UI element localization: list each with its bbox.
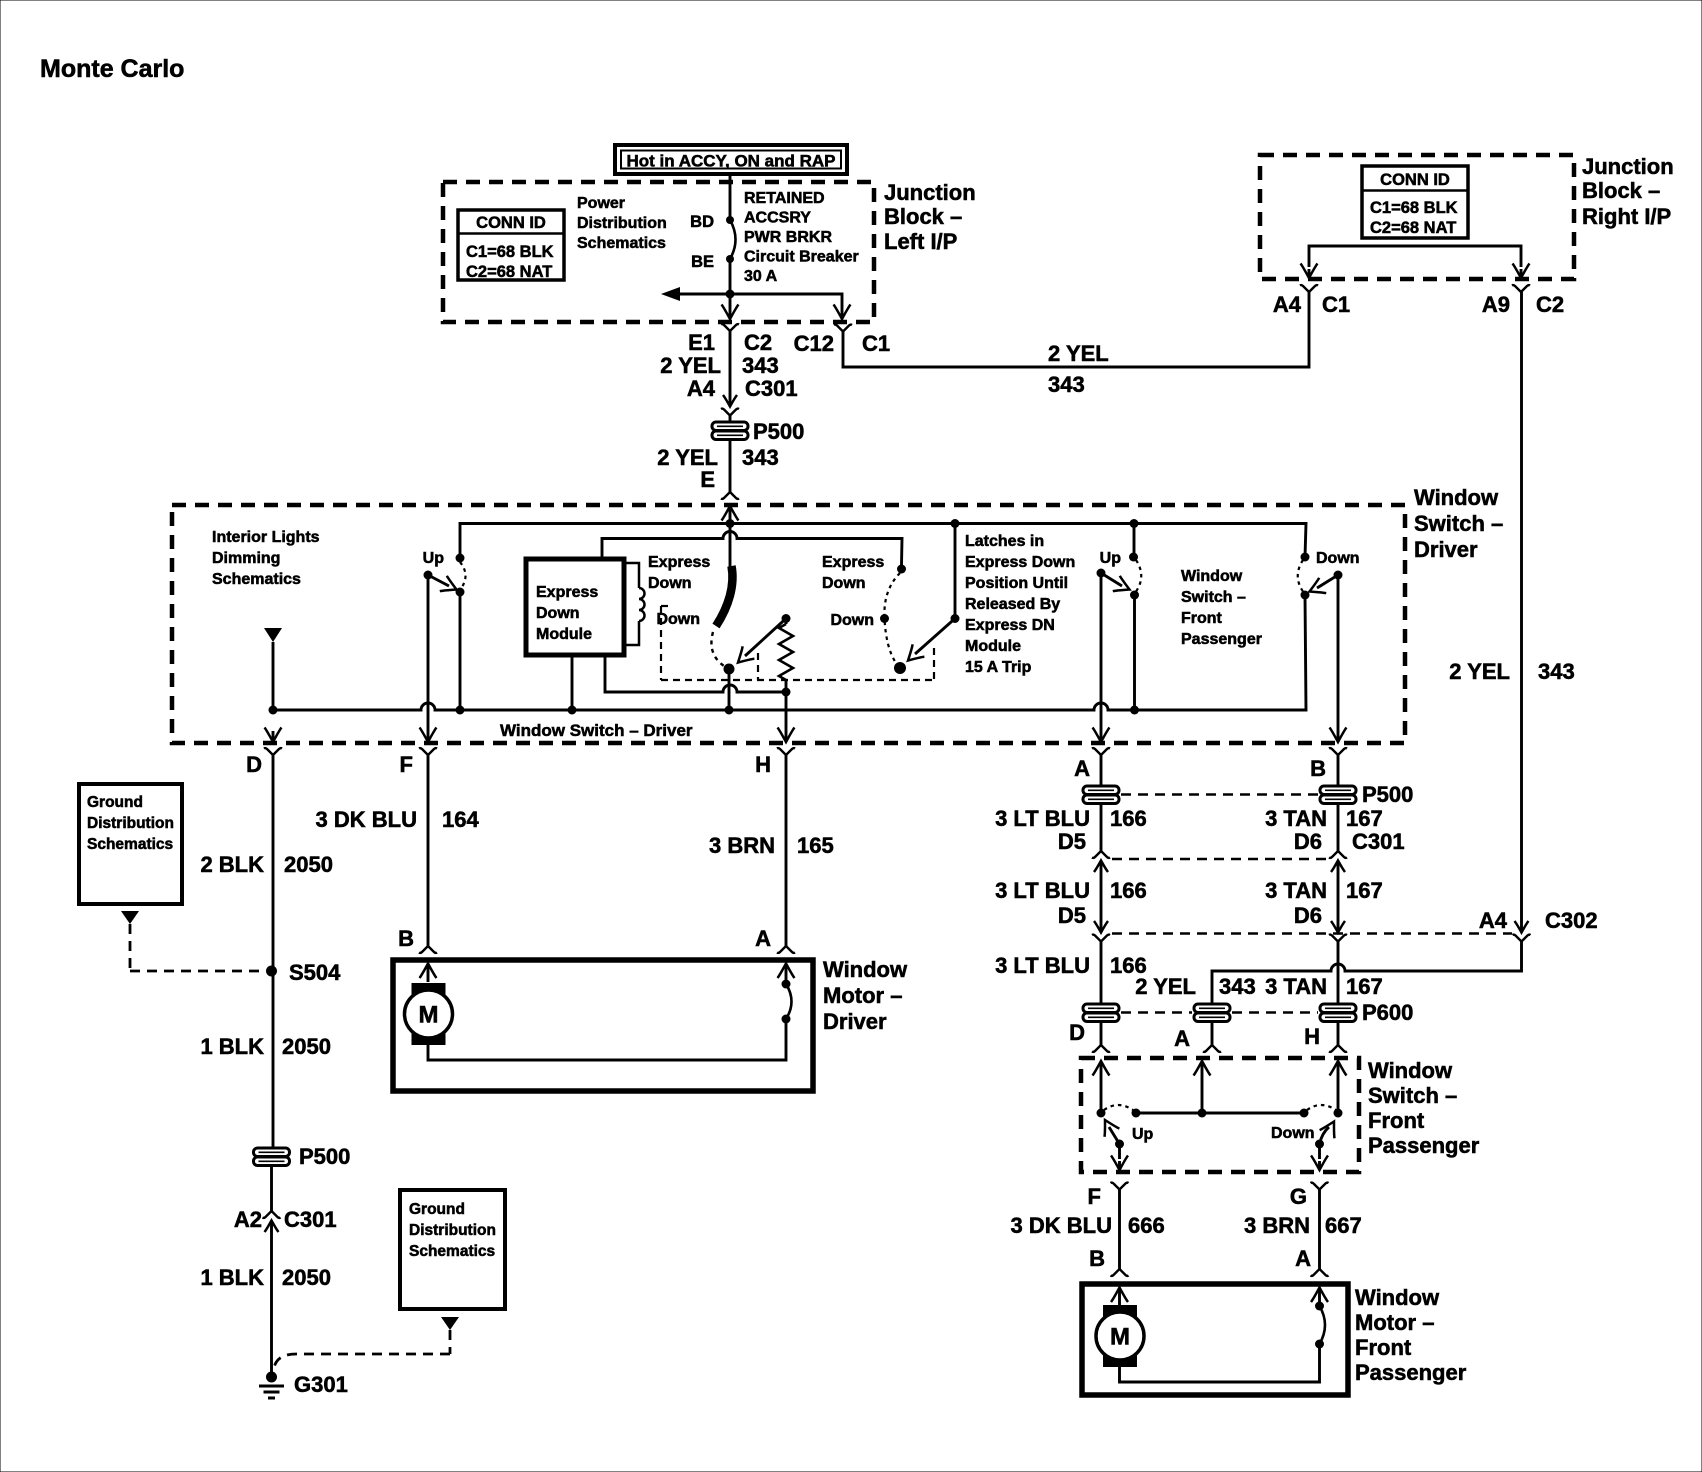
svg-text:P500: P500 [299, 1144, 350, 1169]
connector D passenger [1092, 1045, 1110, 1052]
label 3 BRN 667 [1244, 1213, 1362, 1238]
svg-text:3 BRN: 3 BRN [1244, 1213, 1310, 1238]
label 3 TAN 167 row1 [1265, 806, 1383, 831]
svg-text:667: 667 [1325, 1213, 1362, 1238]
svg-text:A9: A9 [1482, 292, 1510, 317]
label D6 row4 [1294, 903, 1322, 928]
svg-text:Driver: Driver [1414, 537, 1478, 562]
svg-text:Junction: Junction [1582, 154, 1674, 179]
node resistor bottom junction [782, 688, 791, 697]
svg-text:C1: C1 [1322, 292, 1350, 317]
wire B P500 to C301 [1337, 803, 1340, 851]
label Express Down first [648, 554, 710, 592]
connector F passenger [1088, 1183, 1129, 1209]
connector F [400, 748, 437, 777]
svg-text:PWR BRKR: PWR BRKR [744, 229, 832, 246]
interior lights feed triangle [264, 628, 282, 710]
svg-text:C1=68 BLK: C1=68 BLK [1370, 199, 1458, 217]
switch up driver contacts [456, 554, 466, 597]
svg-text:3 LT BLU: 3 LT BLU [995, 806, 1090, 831]
node breaker junction [726, 290, 735, 299]
svg-text:1 BLK: 1 BLK [200, 1265, 264, 1290]
svg-text:D5: D5 [1058, 903, 1086, 928]
wire breaker output [729, 259, 732, 294]
wire 2YEL C302 to P600 [1212, 942, 1522, 1005]
wire F passenger motor [1118, 1190, 1121, 1270]
svg-text:2 YEL: 2 YEL [660, 353, 721, 378]
wire A to P500 [1100, 755, 1103, 787]
svg-text:Express: Express [536, 584, 598, 601]
svg-text:343: 343 [1048, 372, 1085, 397]
svg-text:Front: Front [1368, 1108, 1425, 1133]
label Window Switch Front Passenger inner [1181, 568, 1262, 648]
node bus x729 [725, 706, 734, 715]
wire internal top rail [460, 524, 1306, 559]
svg-text:Ground: Ground [87, 794, 143, 811]
svg-text:G301: G301 [294, 1372, 348, 1397]
svg-text:3 BRN: 3 BRN [709, 833, 775, 858]
svg-text:2050: 2050 [282, 1034, 331, 1059]
dashed link C301 [1112, 858, 1328, 860]
wire below P500 ground [270, 1165, 273, 1211]
label 2 YEL 343 row6 [1135, 974, 1255, 999]
wire B to P500 [1337, 755, 1340, 787]
svg-text:D6: D6 [1294, 903, 1322, 928]
connector A4 C1 [1273, 285, 1350, 317]
svg-text:166: 166 [1110, 806, 1147, 831]
svg-text:Window Switch – Driver: Window Switch – Driver [500, 721, 693, 740]
svg-text:Down: Down [536, 605, 580, 622]
wire H to motor [785, 755, 788, 946]
label 2 YEL 343 E [657, 445, 778, 492]
latch travel dashed arc [711, 632, 724, 666]
svg-text:D: D [1069, 1020, 1085, 1045]
connector G passenger [1290, 1183, 1329, 1209]
label 3 TAN 167 row6 [1265, 974, 1383, 999]
svg-text:Schematics: Schematics [87, 836, 173, 853]
arrow A entry passenger [1194, 1061, 1211, 1113]
svg-text:Motor –: Motor – [823, 983, 902, 1008]
wire G passenger motor [1318, 1190, 1321, 1270]
connector A motor driver [755, 926, 795, 953]
node bus x1134 [1130, 706, 1139, 715]
connector H [755, 748, 795, 777]
label 3 DK BLU 164 [316, 807, 480, 832]
wire motor internal driver [428, 1021, 786, 1060]
module coil [624, 563, 645, 645]
label Down second [830, 612, 874, 629]
switch down passenger arm [1310, 571, 1343, 594]
svg-text:Express: Express [822, 554, 884, 571]
label Up driver [423, 550, 445, 567]
ground box 2 triangle [441, 1317, 459, 1330]
dashed arc down passenger [1307, 1105, 1336, 1110]
node bus x572 [568, 706, 577, 715]
wire hot feed [729, 174, 732, 220]
svg-text:P500: P500 [1362, 782, 1413, 807]
svg-text:RETAINED: RETAINED [744, 190, 825, 207]
node latch pivot [724, 664, 735, 675]
svg-text:P600: P600 [1362, 1000, 1413, 1025]
svg-text:Window: Window [1355, 1285, 1440, 1310]
svg-text:1 BLK: 1 BLK [200, 1034, 264, 1059]
connector B driver [1310, 748, 1347, 781]
node bus x273 [269, 706, 278, 715]
wire arrow to other circuits [661, 287, 730, 301]
svg-text:Window: Window [823, 957, 908, 982]
svg-text:2050: 2050 [284, 852, 333, 877]
svg-text:A: A [755, 926, 771, 951]
svg-text:Interior Lights: Interior Lights [212, 529, 320, 546]
svg-text:167: 167 [1346, 806, 1383, 831]
label Up passenger pod [1100, 550, 1122, 567]
label Down passenger [1271, 1125, 1315, 1142]
svg-text:Block –: Block – [1582, 178, 1660, 203]
dashed wire ground ref 2 [274, 1330, 451, 1371]
wire B C301 to C302 [1337, 868, 1340, 925]
svg-text:C1=68 BLK: C1=68 BLK [466, 243, 554, 261]
svg-text:3 DK BLU: 3 DK BLU [316, 807, 417, 832]
wire D pin [1100, 1021, 1103, 1045]
arrow E entry [722, 506, 739, 523]
svg-text:Down: Down [1271, 1125, 1315, 1142]
label 1 BLK 2050 lower [200, 1265, 331, 1290]
label 3 BRN 165 [709, 833, 834, 858]
wire 2 YEL right side [1520, 292, 1523, 925]
ground box 1 triangle [121, 911, 139, 924]
svg-text:D6: D6 [1294, 829, 1322, 854]
express down module box [526, 559, 624, 655]
svg-text:G: G [1290, 1184, 1307, 1209]
svg-text:Passenger: Passenger [1181, 631, 1262, 648]
svg-text:H: H [755, 752, 771, 777]
svg-text:2 YEL: 2 YEL [1449, 659, 1510, 684]
dashed link C302 [1112, 932, 1512, 934]
svg-text:Distribution: Distribution [87, 815, 174, 832]
ground distribution schematics box 2 [400, 1190, 505, 1309]
window switch driver dashed box [172, 505, 1405, 743]
svg-text:Down: Down [1316, 550, 1360, 567]
svg-text:A4: A4 [1273, 292, 1302, 317]
wire module feed rail [602, 532, 902, 566]
label Junction Block Right I/P [1582, 154, 1674, 229]
svg-text:Ground: Ground [409, 1201, 465, 1218]
svg-text:E1: E1 [688, 330, 715, 355]
svg-text:C2=68 NAT: C2=68 NAT [1370, 219, 1456, 237]
svg-text:Express: Express [648, 554, 710, 571]
connector A2 C301 [234, 1207, 337, 1232]
label 2 YEL 343 crossover [1048, 341, 1109, 397]
svg-text:D: D [246, 752, 262, 777]
switch bar passenger [1097, 1109, 1343, 1118]
arrow exit C12 [834, 305, 851, 320]
svg-text:Latches in: Latches in [965, 533, 1044, 550]
wire D ground [272, 755, 275, 1148]
connector C301 B [1329, 851, 1347, 872]
wire A C301 to C302 [1100, 868, 1103, 925]
connector P500 feed [712, 419, 804, 444]
svg-text:Down: Down [830, 612, 874, 629]
svg-text:C302: C302 [1545, 908, 1598, 933]
svg-text:A: A [1074, 756, 1090, 781]
latch arm heavy [716, 566, 732, 626]
svg-text:Up: Up [423, 550, 445, 567]
svg-text:C301: C301 [284, 1207, 337, 1232]
svg-text:2 BLK: 2 BLK [200, 852, 264, 877]
connector C301 A [1092, 851, 1110, 872]
svg-text:Down: Down [648, 575, 692, 592]
wire arm to A exit [1093, 573, 1110, 742]
label Express Down second [822, 554, 884, 592]
label Latches in Express Down [965, 533, 1075, 676]
svg-text:Module: Module [536, 626, 592, 643]
svg-text:C2: C2 [744, 330, 772, 355]
svg-text:C301: C301 [745, 376, 798, 401]
svg-text:Position Until: Position Until [965, 575, 1068, 592]
junction block right dashed box [1260, 155, 1574, 279]
wire A P500 to C301 [1100, 803, 1103, 851]
svg-text:3 TAN: 3 TAN [1265, 878, 1327, 903]
svg-text:F: F [400, 752, 413, 777]
svg-text:Window: Window [1181, 568, 1243, 585]
arrow exit C2 right [1513, 264, 1530, 279]
label Up passenger [1132, 1126, 1154, 1143]
wire 2 YEL 343 below P500 [729, 439, 732, 492]
svg-text:M: M [419, 1002, 439, 1029]
label D5 row2 [1058, 829, 1086, 854]
motor M driver [405, 983, 453, 1045]
connector B motor passenger [1089, 1246, 1128, 1276]
svg-text:A: A [1295, 1246, 1311, 1271]
switch up passenger contacts [1129, 524, 1141, 600]
wire 2 YEL 343 feed [729, 331, 732, 399]
svg-text:C2=68 NAT: C2=68 NAT [466, 263, 552, 281]
svg-text:S504: S504 [289, 960, 341, 985]
svg-text:Window: Window [1368, 1058, 1453, 1083]
label 3 LT BLU 166 row5 [995, 953, 1147, 978]
svg-text:343: 343 [742, 445, 779, 470]
title Monte Carlo [40, 55, 184, 83]
wire arm to F [420, 575, 437, 742]
splice S504 [266, 960, 341, 985]
switch down passenger contacts [1298, 553, 1310, 600]
wire module right leg to A-rail [605, 655, 786, 692]
svg-text:Right I/P: Right I/P [1582, 204, 1671, 229]
arrow motor B entry [420, 964, 437, 983]
label D5 row4 [1058, 903, 1086, 928]
switch up driver arm [424, 571, 457, 592]
svg-text:A2: A2 [234, 1207, 262, 1232]
svg-text:C12: C12 [794, 331, 834, 356]
svg-text:Driver: Driver [823, 1009, 887, 1034]
svg-text:Down: Down [822, 575, 866, 592]
switch express second contacts [880, 565, 906, 675]
svg-text:3 LT BLU: 3 LT BLU [995, 878, 1090, 903]
label Express Down Module [536, 584, 598, 643]
svg-text:BE: BE [691, 253, 714, 271]
svg-text:Schematics: Schematics [577, 235, 666, 252]
label 2 YEL 343 right [1449, 659, 1574, 684]
wire F to motor [427, 755, 430, 946]
label Window Motor Driver [823, 957, 908, 1034]
label Window Switch Front Passenger outside [1368, 1058, 1480, 1158]
svg-text:15 A Trip: 15 A Trip [965, 659, 1032, 676]
svg-text:Hot in ACCY, ON and RAP: Hot in ACCY, ON and RAP [626, 152, 835, 171]
node rail x955 [951, 519, 960, 528]
connector A driver [1074, 748, 1110, 781]
svg-text:Front: Front [1181, 610, 1223, 627]
label Window Switch Driver outside [1414, 485, 1503, 562]
connector C302 B [1329, 921, 1347, 942]
label Interior Lights Dimming Schematics [212, 529, 320, 588]
svg-text:P500: P500 [753, 419, 804, 444]
svg-text:Express Down: Express Down [965, 554, 1075, 571]
wire into P500 [729, 415, 732, 422]
wire 1 BLK to G301 [270, 1228, 273, 1377]
svg-text:343: 343 [1538, 659, 1575, 684]
node rail x1134 [1130, 519, 1139, 528]
conn id table right [1362, 166, 1468, 238]
label 3 LT BLU 166 row1 [995, 806, 1147, 831]
svg-text:H: H [1304, 1024, 1320, 1049]
motor breaker driver [778, 964, 795, 1024]
svg-text:2 YEL: 2 YEL [1135, 974, 1196, 999]
arrow motor B entry passenger [1111, 1288, 1128, 1307]
svg-text:167: 167 [1346, 878, 1383, 903]
label D6 C301 row2 [1294, 829, 1405, 854]
svg-text:Released By: Released By [965, 596, 1060, 613]
ground G301 [259, 1372, 348, 1399]
svg-text:A4: A4 [687, 376, 716, 401]
svg-text:3 TAN: 3 TAN [1265, 974, 1327, 999]
conn id table left [458, 210, 564, 281]
arrow D entry passenger [1093, 1061, 1110, 1113]
svg-text:Up: Up [1132, 1126, 1154, 1143]
label A4 C302 [1479, 908, 1598, 933]
connector H passenger [1329, 1045, 1347, 1052]
window motor driver box [393, 960, 813, 1091]
wire up passenger contact to bus [1133, 595, 1136, 710]
svg-text:Left I/P: Left I/P [884, 229, 957, 254]
wire B C302 to P600 [1337, 942, 1340, 1005]
label Window Switch Driver inner [500, 721, 693, 740]
connector D [246, 748, 282, 777]
label Down passenger pod [1316, 550, 1360, 567]
label 3 DK BLU 666 [1011, 1213, 1165, 1238]
connector A motor passenger [1295, 1246, 1328, 1276]
connector E into switch [721, 492, 739, 499]
wire pivot feed second [954, 524, 957, 619]
switch release arm second [908, 614, 960, 661]
node E bus junction [726, 519, 735, 528]
svg-text:164: 164 [442, 807, 479, 832]
svg-text:666: 666 [1128, 1213, 1165, 1238]
svg-text:Front: Front [1355, 1335, 1412, 1360]
svg-text:Passenger: Passenger [1368, 1133, 1480, 1158]
junction block left dashed box [443, 182, 874, 322]
window switch front passenger dashed box [1081, 1058, 1359, 1172]
svg-text:Distribution: Distribution [409, 1222, 496, 1239]
svg-text:C2: C2 [1536, 292, 1564, 317]
dashed wire ground ref 1 [130, 924, 264, 971]
svg-text:Up: Up [1100, 550, 1122, 567]
arrow H entry passenger [1330, 1061, 1347, 1113]
svg-text:Switch –: Switch – [1368, 1083, 1457, 1108]
switch arm down passenger [1311, 1122, 1335, 1171]
circuit breaker 30A pins BD BE [690, 213, 735, 271]
arrow D exit [265, 728, 282, 743]
svg-text:3 DK BLU: 3 DK BLU [1011, 1213, 1112, 1238]
svg-text:D5: D5 [1058, 829, 1086, 854]
svg-text:Distribution: Distribution [577, 215, 667, 232]
dashed arc up passenger [1104, 1105, 1133, 1110]
label 1 BLK 2050 upper [200, 1034, 331, 1059]
label 3 TAN 167 row3 [1265, 878, 1383, 903]
connector C302 A [1092, 921, 1110, 942]
label 2 YEL 343 feed [660, 353, 778, 378]
svg-text:F: F [1088, 1184, 1101, 1209]
node bus x460 [456, 706, 465, 715]
svg-text:Passenger: Passenger [1355, 1360, 1467, 1385]
svg-text:Power: Power [577, 195, 625, 212]
label 3 LT BLU 166 row3 [995, 878, 1147, 903]
svg-text:Switch –: Switch – [1181, 589, 1246, 606]
wire A C302 to P600 [1100, 942, 1103, 1005]
wire module left leg [571, 655, 574, 710]
wire H exit [778, 692, 795, 742]
svg-text:E: E [700, 467, 715, 492]
svg-text:Monte Carlo: Monte Carlo [40, 55, 184, 83]
arrow exit C2 [722, 294, 739, 319]
ground distribution schematics box 1 [79, 784, 182, 904]
wire right junction internal [1309, 246, 1521, 267]
label Power Distribution Schematics [577, 195, 667, 252]
wire ground bus rail [273, 595, 1306, 710]
svg-text:B: B [398, 926, 414, 951]
svg-text:CONN ID: CONN ID [476, 214, 546, 232]
svg-text:Dimming: Dimming [212, 550, 280, 567]
svg-text:343: 343 [1219, 974, 1256, 999]
wire latch pivot to bus [728, 669, 731, 710]
wire arm to B exit [1330, 575, 1347, 742]
arrow exit C1 right [1301, 264, 1318, 279]
svg-text:166: 166 [1110, 878, 1147, 903]
svg-text:B: B [1310, 756, 1326, 781]
svg-text:CONN ID: CONN ID [1380, 171, 1450, 189]
svg-text:A4: A4 [1479, 908, 1508, 933]
wire 2 YEL 343 crossover [843, 292, 1309, 367]
wire up contact to bus [459, 592, 462, 710]
svg-text:30 A: 30 A [744, 268, 778, 285]
wire H pin [1337, 1021, 1340, 1045]
connector A passenger [1203, 1045, 1221, 1052]
svg-text:Motor –: Motor – [1355, 1310, 1434, 1335]
connector A9 C2 [1482, 285, 1564, 317]
down position dashed box [661, 606, 934, 680]
svg-text:Window: Window [1414, 485, 1499, 510]
connector B motor driver [398, 926, 437, 953]
svg-text:167: 167 [1346, 974, 1383, 999]
svg-text:M: M [1110, 1324, 1130, 1351]
connector E1 C2 [688, 324, 772, 355]
connector P500 ground [254, 1144, 351, 1169]
switch up passenger arm [1097, 569, 1130, 592]
wire motor internal passenger [1120, 1346, 1320, 1382]
svg-text:3 LT BLU: 3 LT BLU [995, 953, 1090, 978]
resistor [779, 619, 793, 693]
label Window Motor Front Passenger [1355, 1285, 1467, 1385]
switch release arm first [738, 614, 791, 663]
